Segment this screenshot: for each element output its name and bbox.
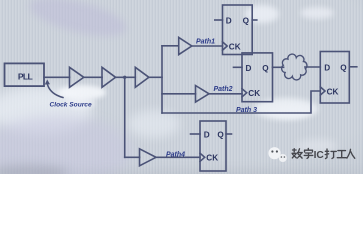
svg-text:PLL: PLL [18, 71, 33, 81]
wire cloud to FF3 D [305, 66, 320, 68]
svg-text:D: D [226, 17, 232, 26]
svg-text:CK: CK [206, 154, 218, 163]
wire B3 to trunk node [149, 76, 162, 78]
wire Path4 buffer to FF4 CK [156, 156, 200, 158]
flip-flop FF4 [191, 121, 232, 171]
flip-flop FF1 [215, 5, 257, 55]
buffer Path4 [140, 149, 157, 166]
buffer B1 [70, 67, 84, 87]
wire branch to Path2 buffer [162, 93, 196, 95]
svg-text:D: D [204, 131, 210, 140]
svg-text:CK: CK [327, 87, 339, 96]
watermark text [292, 148, 355, 158]
cloud network [282, 54, 307, 80]
wire trunk vertical [161, 46, 163, 113]
watermark logo [268, 147, 286, 162]
svg-text:Path4: Path4 [166, 152, 185, 159]
svg-text:CK: CK [248, 89, 260, 98]
wire B1 to B2 [84, 76, 102, 78]
wire Path2 buffer to FF2 CK [209, 93, 242, 95]
svg-text:IC: IC [314, 150, 325, 161]
svg-text:Path2: Path2 [214, 86, 233, 93]
wire PLL to buffer B1 [44, 76, 70, 78]
wire branch to Path1 buffer [162, 45, 179, 47]
wire to Path4 buffer [125, 156, 140, 158]
arrow Clock Source callout [45, 80, 63, 98]
buffer B3 [135, 67, 149, 87]
svg-text:Clock Source: Clock Source [50, 102, 92, 109]
svg-text:Q: Q [217, 131, 224, 140]
svg-text:D: D [324, 63, 330, 72]
flip-flop FF3 [320, 52, 357, 104]
buffer Path1 [179, 37, 192, 54]
buffer Path2 [196, 86, 210, 103]
svg-text:Q: Q [243, 17, 250, 26]
PLL block [5, 63, 45, 86]
wire Path1 buffer to FF1 CK [192, 45, 223, 47]
wire B2 to B3 [116, 76, 136, 78]
svg-text:CK: CK [229, 42, 241, 51]
svg-text:D: D [246, 64, 252, 73]
svg-text:Path1: Path1 [196, 39, 215, 46]
svg-text:Q: Q [262, 64, 269, 73]
svg-text:Q: Q [340, 63, 347, 72]
photo smudges [26, 0, 130, 44]
wire Path3 net [162, 91, 320, 113]
svg-text:Path 3: Path 3 [236, 107, 257, 114]
wire drop to Path4 [124, 77, 126, 157]
node junction J1 [123, 76, 126, 79]
buffer B2 [102, 67, 116, 87]
flip-flop FF2 [234, 53, 284, 102]
